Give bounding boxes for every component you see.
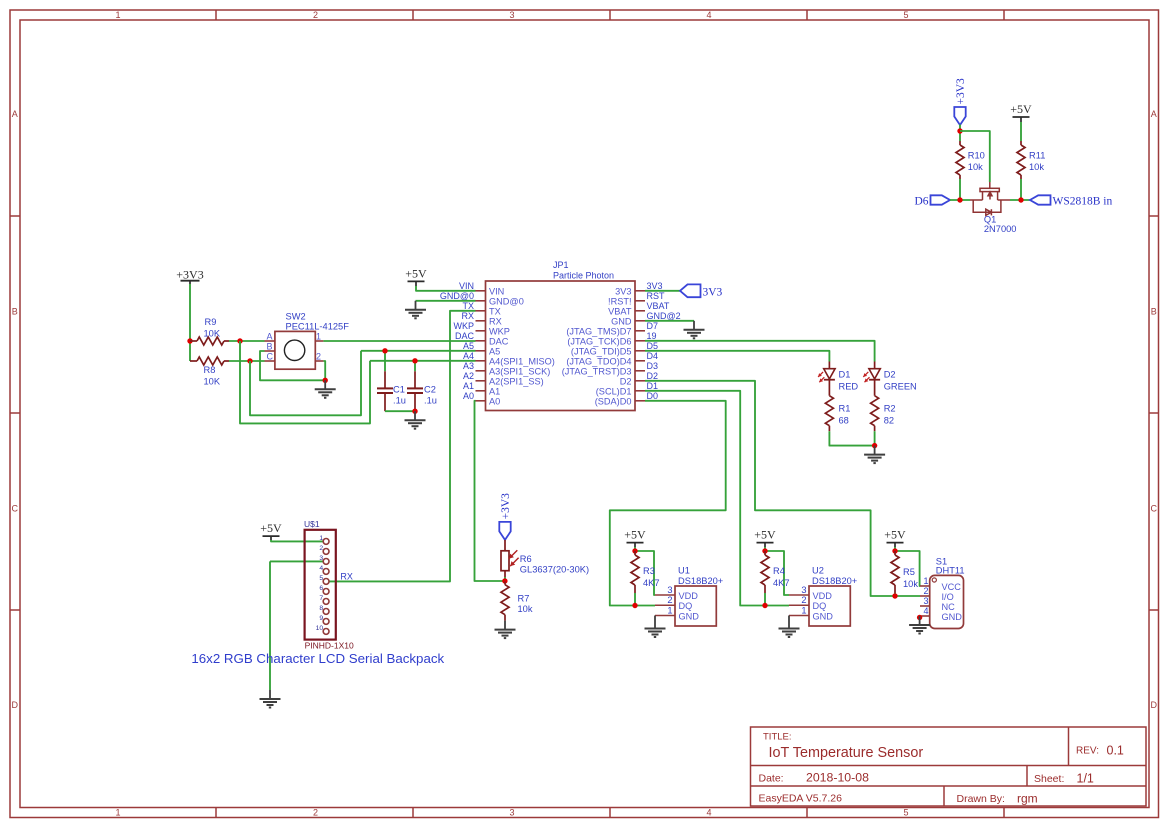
svg-text:R3: R3 [643,566,655,576]
svg-text:R10: R10 [968,151,985,161]
svg-text:2: 2 [923,586,928,596]
wire +5V to U$1 pin 1 [271,540,323,541]
power flag +3V3 (R6) [499,522,510,540]
wire D6 flag to Q1 [950,199,970,201]
pin 7 (U$1) [323,599,329,605]
svg-text:D: D [1151,700,1158,710]
svg-text:B: B [267,341,273,351]
svg-text:D1: D1 [839,369,851,379]
svg-text:WKP: WKP [453,321,474,331]
resistor R5 10k [894,551,896,555]
pin (SDA)D0 (right 12) [635,400,645,402]
node R6/R7 junction [502,578,507,583]
svg-text:R6: R6 [520,554,532,564]
pin (JTAG_TMS)D7 (right 5) [635,330,645,332]
ground (S1) [919,616,921,625]
resistor R11 [1020,141,1022,145]
svg-text:(JTAG_TMS)D7: (JTAG_TMS)D7 [566,326,631,336]
svg-text:10k: 10k [518,604,533,614]
svg-text:Particle Photon: Particle Photon [553,271,614,281]
ground (LCD) [269,690,271,699]
svg-text:+3V3: +3V3 [955,78,967,105]
ground (LEDs) [874,446,876,455]
svg-text:0.1: 0.1 [1107,744,1124,758]
svg-text:Q1: Q1 [984,214,996,224]
svg-text:D0: D0 [647,391,659,401]
svg-text:VCC: VCC [942,582,962,592]
svg-text:+3V3: +3V3 [500,493,512,520]
svg-text:A4: A4 [463,351,474,361]
wire R11 to source rail [1020,179,1022,200]
pin GND (S1.4) [920,615,930,617]
svg-text:10k: 10k [1029,162,1044,172]
wire A5 loop (JP1 A5 to R8 net) [250,351,361,416]
node +5V/R5 junction [892,548,897,553]
rotary encoder SW2 PEC11L-4125F [275,331,315,369]
svg-text:10k: 10k [968,162,983,172]
svg-text:1: 1 [115,10,120,20]
svg-text:GND: GND [611,316,632,326]
svg-text:RED: RED [839,381,859,391]
node R11/source junction [1018,197,1023,202]
wire A4 row to JP1 [370,360,476,362]
pin WKP (left 5) [476,330,486,332]
svg-text:8: 8 [319,605,323,612]
pin header U$1 PINHD-1X10 [305,530,336,640]
node +5V/R3 junction [632,548,637,553]
svg-text:R2: R2 [884,404,896,414]
svg-text:RX: RX [489,316,502,326]
svg-text:4: 4 [706,808,711,818]
svg-text:+5V: +5V [405,266,427,280]
node C2 ground junction [412,409,417,414]
node S1 GND junction [917,615,922,620]
svg-text:6: 6 [319,585,323,592]
svg-text:A5: A5 [463,341,474,351]
svg-text:Drawn By:: Drawn By: [957,793,1005,805]
svg-text:1: 1 [319,535,323,542]
svg-text:2018-10-08: 2018-10-08 [806,771,869,785]
svg-text:GND@2: GND@2 [647,311,681,321]
svg-text:DS18B20+: DS18B20+ [812,576,857,586]
svg-text:A2: A2 [463,371,474,381]
svg-text:TITLE:: TITLE: [763,732,792,743]
node U1 DQ junction [632,603,637,608]
svg-text:U$1: U$1 [304,519,320,529]
svg-text:VIN: VIN [489,286,504,296]
wire R9 to SW2 pin A [229,340,265,342]
svg-text:VIN: VIN [459,281,474,291]
pin VCC (S1.1) [920,585,930,587]
LED D1 RED [828,362,830,369]
node +5V/R4 junction [762,548,767,553]
svg-text:REV:: REV: [1076,746,1099,757]
svg-text:PINHD-1X10: PINHD-1X10 [305,640,354,650]
pin (JTAG_TRST)D3 (right 9) [635,370,645,372]
svg-text:PEC11L-4125F: PEC11L-4125F [286,322,350,332]
svg-text:B: B [12,307,18,317]
svg-text:Sheet:: Sheet: [1034,773,1064,785]
svg-text:+5V: +5V [1010,102,1032,116]
pin (SCL)D1 (right 11) [635,390,645,392]
resistor R3 4K7 [634,551,636,555]
svg-text:DS18B20+: DS18B20+ [678,576,723,586]
wire JP1 TX to LCD RX [329,311,476,582]
wire +5V to U2 VDD [765,551,789,595]
wire JP1 GND@0 to ground [416,300,476,302]
pin I/O (S1.2) [920,595,930,597]
pin 1 (U$1) [323,539,329,545]
svg-text:A4(SPI1_MISO): A4(SPI1_MISO) [489,356,555,366]
svg-text:+5V: +5V [754,528,776,542]
wire SW2 pin 1 to JP1 DAC [323,340,475,342]
wire JP1 3V3 to flag [645,290,680,292]
capacitor C1 [384,351,386,372]
svg-text:R1: R1 [839,404,851,414]
power flag +3V3 (top right) [954,107,965,125]
svg-text:3: 3 [667,585,672,595]
svg-text:!RST!: !RST! [608,296,631,306]
svg-text:RX: RX [340,571,353,581]
svg-text:3: 3 [801,585,806,595]
resistor R4 4K7 [764,551,766,555]
svg-text:TX: TX [489,306,501,316]
pin TX (left 3) [476,310,486,312]
svg-text:7: 7 [319,595,323,602]
wire +5V to JP1 VIN [415,281,417,286]
ground (U2) [788,616,790,629]
svg-text:1: 1 [801,605,806,615]
node R8 right junction [247,358,252,363]
svg-text:GND: GND [942,612,963,622]
svg-text:3: 3 [923,596,928,606]
svg-text:A3: A3 [463,361,474,371]
svg-text:A: A [1151,109,1157,119]
pin GND@0 (left 2) [476,300,486,302]
svg-text:2: 2 [316,351,321,361]
node R5/IO junction [892,593,897,598]
svg-text:RST: RST [647,291,666,301]
wire A5 row to JP1 [361,350,476,352]
svg-text:2: 2 [667,595,672,605]
svg-text:VDD: VDD [679,591,699,601]
pin 8 (U$1) [323,609,329,615]
pin (JTAG_TCK)D6 (right 6) [635,340,645,342]
pin 6 (U$1) [323,589,329,595]
net flag D6 [931,195,951,204]
svg-text:rgm: rgm [1017,792,1038,806]
svg-text:A0: A0 [463,391,474,401]
svg-text:C: C [1151,504,1158,514]
ground (R7) [504,621,506,630]
wire JP1 GND to ground [645,320,694,322]
svg-text:10k: 10k [903,579,918,589]
IC U2 DS18B20+ [809,586,850,626]
pin 9 (U$1) [323,619,329,625]
svg-text:(SDA)D0: (SDA)D0 [595,396,632,406]
svg-text:D6: D6 [914,196,928,208]
pin A0 (left 12) [476,400,486,402]
wire R8 to SW2 pin C [229,360,265,362]
svg-text:C1: C1 [393,385,405,395]
pin GND (right 4) [635,320,645,322]
pin 2 (U$1) [323,549,329,555]
svg-text:D2: D2 [647,371,659,381]
svg-text:1: 1 [115,808,120,818]
svg-text:3: 3 [509,808,514,818]
svg-text:82: 82 [884,416,894,426]
svg-text:68: 68 [839,416,849,426]
svg-text:RX: RX [461,311,474,321]
wire net 19 (D6 pin) to LED D2 [645,341,875,362]
svg-text:GL3637(20-30K): GL3637(20-30K) [520,565,589,575]
pin A2(SPI1_SS) (left 10) [476,380,486,382]
svg-text:A1: A1 [463,381,474,391]
svg-text:NC: NC [942,602,956,612]
svg-text:5: 5 [903,10,908,20]
ground (SW2) [324,380,326,389]
resistor R7 10k [504,582,506,585]
resistor R9 [190,340,197,342]
svg-text:1: 1 [923,576,928,586]
pin A3(SPI1_SCK) (left 9) [476,370,486,372]
svg-text:10K: 10K [204,328,221,338]
pin DQ (U2.2) [789,604,809,606]
photoresistor R6 GL3637 [501,551,509,571]
svg-text:R9: R9 [205,317,217,327]
pin 5 (U$1) [323,579,329,585]
pin 10 (U$1) [323,629,329,635]
svg-text:.1u: .1u [424,395,437,405]
svg-text:2N7000: 2N7000 [984,224,1017,234]
svg-text:3: 3 [509,10,514,20]
node R9 left junction [187,338,192,343]
svg-text:EasyEDA V5.7.26: EasyEDA V5.7.26 [759,793,843,805]
pin RX (left 4) [476,320,486,322]
pin 4 (U$1) [323,569,329,575]
svg-text:9: 9 [319,615,323,622]
svg-text:R7: R7 [518,594,530,604]
svg-text:(JTAG_TCK)D6: (JTAG_TCK)D6 [567,336,631,346]
svg-text:+3V3: +3V3 [176,267,203,281]
svg-text:R5: R5 [903,567,915,577]
pin GND (U2.1) [789,615,809,617]
svg-text:TX: TX [462,301,474,311]
svg-text:A1: A1 [489,386,500,396]
IC U1 DS18B20+ [675,586,716,626]
svg-text:+5V: +5V [624,528,646,542]
svg-text:1: 1 [667,605,672,615]
svg-text:VDD: VDD [813,591,833,601]
svg-text:D2: D2 [620,376,632,386]
transistor Q1 2N7000 [970,182,1010,215]
pin DAC (left 6) [476,340,486,342]
pin D2 (right 10) [635,380,645,382]
node SW2 ground junction [323,378,328,383]
svg-text:GND@0: GND@0 [489,296,524,306]
wire R10 to drain rail [959,179,961,200]
wire +5V to U1 VDD [635,551,655,595]
svg-text:(JTAG_TRST)D3: (JTAG_TRST)D3 [562,366,632,376]
pin VIN (left 1) [476,290,486,292]
svg-text:D5: D5 [647,341,659,351]
wire/lead flag to R6 [504,540,506,551]
svg-text:A0: A0 [489,396,500,406]
svg-text:2: 2 [313,10,318,20]
svg-text:DAC: DAC [455,331,475,341]
svg-text:WKP: WKP [489,326,510,336]
svg-text:A2(SPI1_SS): A2(SPI1_SS) [489,376,544,386]
LED D2 GREEN [874,362,876,369]
pin A1 (left 11) [476,390,486,392]
svg-text:2: 2 [801,595,806,605]
svg-text:GREEN: GREEN [884,381,917,391]
svg-text:4: 4 [319,565,323,572]
wire net D0 to U1 DQ [610,401,726,606]
net flag 3V3 [680,284,701,297]
svg-text:+5V: +5V [884,528,906,542]
node R9 right junction [237,338,242,343]
svg-text:A: A [12,109,18,119]
node 3V3/R10/gate junction [957,128,962,133]
svg-text:(JTAG_TDO)D4: (JTAG_TDO)D4 [566,356,631,366]
pin GND (U1.1) [655,615,675,617]
resistor R1 [828,380,830,396]
svg-text:A5: A5 [489,346,500,356]
svg-text:WS2818B in: WS2818B in [1053,196,1113,208]
wire A4 loop (JP1 A4 to R9 net) [240,341,370,423]
svg-text:C2: C2 [424,385,436,395]
wire SW2 pin 2 down to ground rail [323,361,325,380]
svg-text:D7: D7 [647,321,659,331]
pin (JTAG_TDI)D5 (right 7) [635,350,645,352]
svg-text:10: 10 [316,625,324,632]
svg-text:4: 4 [923,606,928,616]
svg-text:3V3: 3V3 [615,286,631,296]
wire +3V3 down to R9/R8 [189,281,191,284]
svg-text:(JTAG_TDI)D5: (JTAG_TDI)D5 [571,346,632,356]
svg-text:DQ: DQ [679,601,693,611]
svg-text:D1: D1 [647,381,659,391]
wire JP1 A0 to R6/R7 divider [475,401,505,581]
svg-text:A: A [267,331,273,341]
svg-text:I/O: I/O [942,592,954,602]
node U2 DQ junction [762,603,767,608]
pin VDD (U1.3) [655,594,675,596]
svg-text:VBAT: VBAT [608,306,632,316]
pin A4(SPI1_MISO) (left 8) [476,360,486,362]
capacitor C2 [414,361,416,372]
pin DQ (U1.2) [655,604,675,606]
svg-text:JP1: JP1 [553,260,569,270]
wire +5V to S1 VCC [895,551,920,586]
svg-text:5: 5 [903,808,908,818]
svg-text:DAC: DAC [489,336,509,346]
svg-text:GND@0: GND@0 [440,291,474,301]
ground (C1/C2) [414,411,416,420]
svg-text:B: B [1151,307,1157,317]
svg-text:1: 1 [316,331,321,341]
wire net D1 to U2 DQ [645,391,789,606]
ground (GND@0) [415,301,417,310]
svg-text:SW2: SW2 [286,311,306,321]
pin VDD (U2.3) [789,594,809,596]
svg-text:+5V: +5V [260,521,282,535]
svg-text:D4: D4 [647,351,659,361]
svg-text:VBAT: VBAT [647,301,670,311]
pin VBAT (right 3) [635,310,645,312]
wire R1 to ground rail [829,431,874,445]
svg-text:R8: R8 [204,365,216,375]
svg-text:DQ: DQ [813,601,827,611]
resistor R10 [959,141,961,145]
svg-text:3: 3 [319,555,323,562]
pin NC (S1.3) [920,605,930,607]
svg-text:GND: GND [813,611,834,621]
svg-text:R4: R4 [773,566,785,576]
svg-text:.1u: .1u [393,395,406,405]
resistor R2 [874,380,876,396]
svg-text:3V3: 3V3 [703,287,723,299]
wire R2 to ground rail [874,431,876,445]
svg-text:Date:: Date: [759,773,784,785]
svg-text:DHT11: DHT11 [936,565,965,575]
svg-text:3V3: 3V3 [647,281,663,291]
connector JP1 Particle Photon [486,281,636,411]
svg-text:C: C [12,504,19,514]
svg-text:R11: R11 [1029,151,1045,161]
wire U$1 pin 3 to ground [270,560,323,562]
wire 3V3 flag to R10 [959,125,961,142]
sensor S1 DHT11 [930,575,964,628]
svg-text:4K7: 4K7 [773,578,790,588]
pin !RST! (right 2) [635,300,645,302]
svg-text:16x2 RGB Character LCD Serial: 16x2 RGB Character LCD Serial Backpack [191,651,444,666]
wire net D5 to LED D1 [645,351,829,362]
svg-text:(SCL)D1: (SCL)D1 [596,386,632,396]
svg-text:5: 5 [319,575,323,582]
svg-text:4: 4 [706,10,711,20]
pin A5 (left 7) [476,350,486,352]
svg-text:4K7: 4K7 [643,578,660,588]
svg-text:10K: 10K [204,377,221,387]
svg-text:GND: GND [679,611,700,621]
ground (GND@2) [693,321,695,330]
wire C1/C2 ground rail [385,410,415,412]
svg-text:IoT Temperature Sensor: IoT Temperature Sensor [769,745,924,761]
ground (U1) [654,616,656,629]
pin (JTAG_TDO)D4 (right 8) [635,360,645,362]
title block [751,727,1147,806]
resistor R8 [190,360,197,362]
wire Q1 to WS2818B flag [1010,199,1030,201]
pin 3 (U$1) [323,559,329,565]
svg-text:U1: U1 [678,566,690,576]
wire +5V to R11 [1020,117,1022,122]
svg-text:19: 19 [647,331,657,341]
node D6 junction [957,197,962,202]
svg-text:2: 2 [313,808,318,818]
lead R6 to divider node [504,571,506,577]
node LED ground junction [872,443,877,448]
svg-text:D: D [12,700,19,710]
wire junction to Q1 gate [960,131,990,182]
svg-text:D2: D2 [884,369,896,379]
wire net D2 to DHT11 I/O [645,381,920,596]
svg-text:2: 2 [319,545,323,552]
wire SW2 pin B to ground rail [260,351,325,380]
svg-text:U2: U2 [812,566,824,576]
